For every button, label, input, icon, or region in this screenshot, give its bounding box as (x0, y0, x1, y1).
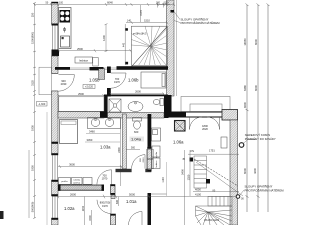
svg-text:1930: 1930 (31, 125, 35, 131)
interior wall horizontal 1.02a/1.03a (58, 185, 104, 191)
stair top walking line (132, 26, 168, 66)
stair bottom winder fan (196, 206, 233, 225)
svg-text:2400: 2400 (118, 147, 121, 153)
line top of stair hall (151, 193, 167, 195)
svg-text:sušička: sušička (73, 180, 81, 182)
wall left outer hatched mid (52, 56, 59, 74)
wall vertical 1.02a/1.01a upper piece (111, 185, 116, 195)
svg-text:6040: 6040 (107, 0, 113, 4)
boxed label -1,300 outside wall (37, 102, 48, 107)
door label 900 2030 (61, 79, 67, 86)
wall VS closet piece (148, 147, 152, 171)
svg-text:140: 140 (127, 19, 132, 22)
dim vertical stair left 4x50 (124, 24, 126, 65)
svg-text:1970: 1970 (102, 204, 108, 208)
svg-text:3600: 3600 (69, 162, 75, 166)
room label 1.03a (100, 145, 111, 150)
entrance door gap left wall (52, 74, 58, 92)
svg-text:lednice: lednice (156, 160, 158, 168)
svg-text:myčka: myčka (156, 151, 158, 158)
toilet 1.04a (133, 118, 142, 130)
dim text top (46, 0, 114, 4)
wall right of small bath black (164, 95, 169, 118)
svg-text:1.05b: 1.05b (89, 78, 100, 83)
shaft checkered block (99, 69, 105, 80)
svg-text:600: 600 (134, 130, 139, 134)
wall top of bathroom 1.03a hatched (58, 112, 108, 119)
label 1751 (209, 149, 215, 153)
double door to porch (190, 117, 220, 130)
dim line 4000 stair (193, 191, 239, 193)
svg-text:1100: 1100 (164, 1, 170, 4)
svg-text:2020: 2020 (202, 127, 208, 131)
svg-text:4200: 4200 (253, 168, 257, 174)
svg-text:1500: 1500 (89, 215, 92, 221)
svg-text:2010: 2010 (143, 157, 145, 163)
black post top stair left lower (125, 62, 128, 65)
wardrobe band below 1.05b (59, 97, 104, 112)
svg-text:100: 100 (59, 1, 64, 4)
washer dryer boxes (59, 178, 93, 185)
dim ticks top right (157, 4, 170, 6)
svg-text:1751: 1751 (209, 149, 215, 153)
stair label text (204, 219, 220, 222)
shower square (109, 99, 121, 112)
closet boxes with rotated labels (147, 150, 154, 169)
svg-text:14950: 14950 (243, 38, 247, 46)
svg-text:1.06b: 1.06b (128, 78, 139, 83)
svg-text:1500(900): 1500(900) (31, 32, 35, 44)
corner pillar right hatched (222, 110, 238, 121)
dim kitchen 2500 (58, 49, 132, 52)
stair top label (133, 34, 147, 36)
window left room 1.02a (52, 196, 57, 218)
appliance rotated labels (156, 151, 158, 158)
wall vertical 1.02a/1.01a lower piece (111, 214, 116, 225)
faucet icon (63, 27, 66, 33)
svg-text:1970: 1970 (114, 80, 120, 84)
svg-text:600: 600 (116, 199, 119, 204)
room label 1.02a (64, 206, 75, 211)
svg-text:2500: 2500 (78, 92, 84, 96)
wall left pier 2 (52, 180, 59, 196)
wall right vertical hatched (230, 120, 238, 225)
leader lines sloupy top (174, 12, 180, 23)
line under VS (188, 153, 239, 155)
svg-text:2600: 2600 (70, 192, 76, 196)
wall left bottom (52, 218, 59, 225)
wall between 1.03a and 1.04a (123, 114, 127, 169)
svg-text:6000: 6000 (243, 168, 247, 174)
chimney square with cross (175, 121, 186, 132)
annotation sloupy top (181, 16, 221, 25)
chimney circle on facade (239, 143, 244, 148)
door 1.04a arc (132, 155, 145, 169)
dim text left rotated (31, 12, 35, 212)
pantry box kitchen (93, 58, 98, 67)
leader line second (196, 162, 243, 196)
wall black bar left of stair (148, 193, 152, 225)
svg-text:18x184,5x284: 18x184,5x284 (204, 219, 220, 222)
svg-text:4000: 4000 (195, 188, 201, 192)
svg-text:1.01a: 1.01a (126, 199, 137, 204)
svg-text:300: 300 (156, 1, 161, 4)
dim 2600 room 1.06b (110, 92, 165, 95)
window left bathroom (52, 155, 57, 180)
dim vertical 1150 in 1.02a (84, 197, 86, 226)
svg-text:1150: 1150 (82, 205, 85, 211)
dim labels 3460 3450 (87, 129, 96, 142)
svg-text:250: 250 (31, 12, 35, 17)
svg-text:PROTIPOŽÁRNÍM NÁTĚREM: PROTIPOŽÁRNÍM NÁTĚREM (245, 187, 285, 192)
svg-text:6000: 6000 (254, 39, 258, 45)
wall top of 1.04a hatched (108, 113, 165, 119)
svg-text:6000: 6000 (254, 85, 258, 91)
wall left outer hatched segment top (52, 2, 59, 26)
room label 1.06b (128, 78, 139, 83)
svg-text:1.06a: 1.06a (173, 140, 184, 145)
leader sloupy bottom (240, 190, 245, 196)
svg-text:PROTIPOŽÁRNÍM NÁTĚREM: PROTIPOŽÁRNÍM NÁTĚREM (181, 20, 221, 25)
circle marker sloupy bottom (236, 195, 240, 199)
porch rectangle outside entrance (39, 67, 52, 95)
door 1.06b arc (111, 73, 126, 88)
svg-text:1.04a: 1.04a (131, 137, 142, 142)
svg-text:2030: 2030 (61, 82, 67, 86)
svg-text:3450: 3450 (87, 138, 93, 142)
svg-text:1970: 1970 (102, 177, 108, 181)
svg-text:pračka: pračka (61, 180, 68, 183)
wall left pier with caps (52, 142, 59, 155)
svg-text:3125: 3125 (31, 80, 35, 86)
wall between 1.05b and 1.06b (104, 67, 111, 113)
stair walking line dashed (194, 159, 238, 186)
bathtub (60, 120, 78, 144)
black post top stair left (125, 28, 128, 31)
dim vertical 2400 in 1.03a (120, 119, 122, 186)
plaster face line right of center wall (175, 0, 177, 96)
svg-text:440: 440 (122, 42, 125, 47)
svg-text:3460: 3460 (89, 129, 95, 133)
svg-text:1200: 1200 (102, 35, 106, 41)
label VS (190, 149, 194, 153)
svg-text:4100: 4100 (195, 192, 201, 196)
floor line corridor (166, 162, 168, 196)
room label 1.04a (130, 137, 145, 142)
dim vertical 1500 in 1.02a (91, 210, 93, 225)
door label 700 1970 bath (102, 174, 108, 181)
facade line left (46, 112, 48, 225)
room label 1.06a (173, 140, 184, 145)
leader to chimney text (243, 140, 256, 144)
svg-text:5400: 5400 (181, 169, 185, 175)
svg-text:1.02a: 1.02a (64, 206, 75, 211)
dim 1510 stair (126, 21, 168, 24)
svg-text:500: 500 (131, 147, 136, 150)
label 00 (241, 198, 244, 201)
cased opening lines top wall (70, 68, 117, 70)
door label 700 1970 (114, 77, 120, 84)
appliance boxes right of 1.04a (152, 128, 161, 169)
svg-text:+2,020: +2,020 (85, 85, 94, 89)
svg-text:1510: 1510 (144, 18, 150, 22)
toilet 1.06b bath (153, 99, 163, 106)
dim line bottom 5000 4000 (52, 195, 240, 199)
dim line left second (28, 150, 30, 218)
svg-text:1.03a: 1.03a (100, 145, 111, 150)
svg-text:1100: 1100 (162, 177, 165, 183)
kitchen sink (61, 36, 70, 47)
door label 1800 2020 (202, 124, 208, 131)
dim vertical kitchen 1200 (105, 24, 108, 53)
black blob left edge bottom (0, 211, 4, 219)
room label 1.05b (89, 78, 100, 83)
newel post black mid stair (206, 179, 210, 184)
kitchen counter outline (59, 8, 72, 49)
wall below 1.04a segments with door gap (116, 169, 152, 172)
wall vertical small piece (111, 195, 115, 199)
annotation sloupy bottom (245, 184, 285, 193)
dim line top horizontal (34, 3, 176, 8)
stove black with burners (60, 10, 71, 23)
svg-text:(jiného): (jiného) (73, 182, 81, 184)
dim 500 in 1.04a (127, 149, 141, 151)
wall center vertical black lower (164, 95, 172, 118)
svg-text:1950: 1950 (31, 165, 35, 171)
svg-text:8200: 8200 (243, 102, 247, 108)
interior wall top horizontal black (55, 66, 168, 70)
wall center vertical hatched top (167, 0, 175, 96)
porch nested rectangles top right (181, 97, 230, 112)
stair top winder (131, 26, 167, 65)
black tick on center wall (171, 10, 175, 13)
wall left corner black (52, 50, 60, 57)
annotation nerezovy komin (245, 133, 276, 141)
wall left outer hatched below door (52, 91, 59, 142)
dim text right rotated (243, 38, 258, 174)
window left kitchen (52, 26, 57, 50)
wall bottom of 1.06b black (104, 95, 168, 97)
svg-text:-1,300: -1,300 (38, 103, 46, 106)
label 35 (182, 158, 185, 161)
door label 800(700) 1970 (100, 201, 111, 208)
wall right of 1.04a (148, 114, 152, 147)
vanity counter with two sinks (88, 118, 121, 129)
bed in 1.06b (141, 72, 166, 88)
stair lower upper-flight treads (194, 156, 207, 188)
svg-text:VS: VS (190, 149, 194, 153)
room label 1.01a (126, 199, 137, 204)
stair bottom second flight (208, 196, 232, 206)
dim vertical 2170 above stair (140, 5, 142, 22)
black post top stair (190, 158, 194, 162)
fridge box lednice (75, 57, 93, 63)
svg-text:6480: 6480 (243, 85, 247, 91)
dim 2500 room 1.05b (58, 94, 105, 97)
dim label 600 toilet (134, 130, 139, 134)
dim 600 vertical 1.01a (118, 197, 120, 206)
radiator right wall 1.06a (221, 137, 227, 148)
svg-text:2600: 2600 (135, 90, 141, 94)
door 1.03a arc (97, 170, 112, 185)
top wall of room 1.06a thick black (172, 112, 231, 118)
svg-text:PŘIZDĚNÝ DO FASÁDY: PŘIZDĚNÝ DO FASÁDY (245, 136, 276, 141)
dim lines right vertical x3 (247, 5, 268, 212)
svg-text:lednice: lednice (79, 59, 88, 63)
svg-text:1350: 1350 (187, 174, 191, 180)
door 1.04a rotated labels (140, 157, 145, 163)
dim line left vertical main (33, 3, 36, 219)
svg-text:a=284x184,5: a=284x184,5 (133, 34, 147, 36)
door 1.01a arc bottom (129, 212, 143, 226)
door 1.02a arc (97, 200, 111, 214)
svg-text:2500: 2500 (77, 47, 83, 51)
dim rotated 1100 corridor (162, 177, 165, 183)
elevation box 1.05b (83, 85, 95, 89)
entrance door arc 1.05b (58, 75, 74, 92)
svg-text:5000: 5000 (129, 192, 135, 196)
label 80 (213, 190, 216, 193)
svg-text:2170: 2170 (140, 10, 143, 16)
dim 3600 room 1.03a (58, 165, 122, 168)
dim vertical 5400 1350 (185, 150, 191, 225)
washbasin oval (128, 102, 143, 112)
svg-text:500(900): 500(900) (31, 202, 35, 213)
